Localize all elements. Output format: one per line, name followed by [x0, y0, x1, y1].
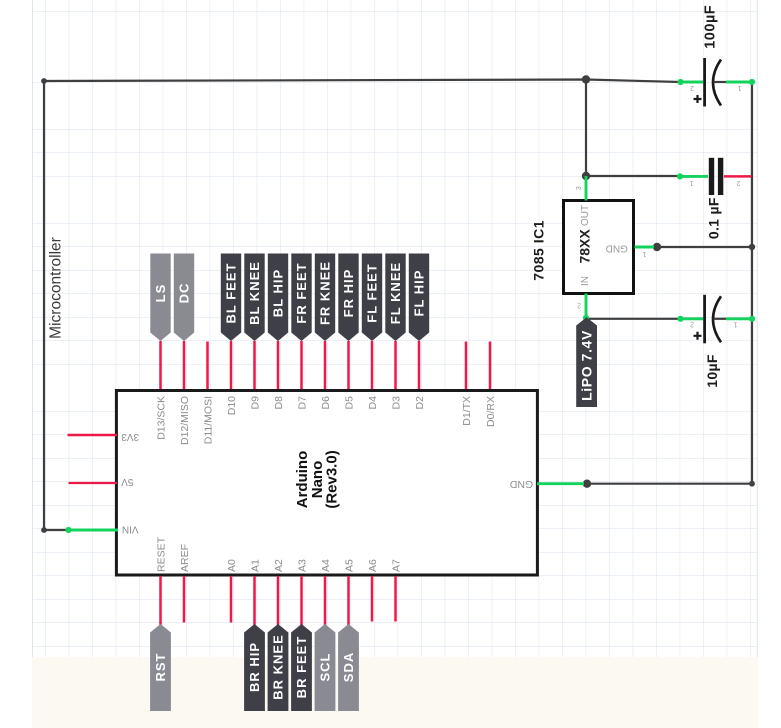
- node: Arduino GND junction: [583, 480, 591, 488]
- svg-text:SCL: SCL: [318, 653, 333, 682]
- capacitor C1 100uF curved plate: [713, 60, 721, 106]
- svg-text:D10: D10: [226, 396, 238, 415]
- wire: regulator GND to right rail: [657, 246, 752, 248]
- flag BR HIP on A1: [244, 624, 265, 711]
- svg-text:LS: LS: [153, 284, 168, 303]
- flag BR KNEE on A2: [268, 624, 289, 711]
- svg-text:3V3: 3V3: [121, 431, 139, 442]
- svg-text:2: 2: [736, 179, 740, 186]
- pin D2 leg: [418, 341, 421, 389]
- flag LiPO 7.4V on regulator IN: [576, 317, 597, 407]
- flag FR FEET on D7: [291, 254, 311, 342]
- pin D13/SCK leg: [159, 341, 162, 389]
- svg-text:A3: A3: [296, 559, 308, 572]
- wire: vertical from top rail to regulator OUT node: [585, 80, 587, 177]
- flag BL FEET on D10: [221, 254, 241, 342]
- svg-text:A5: A5: [343, 559, 355, 572]
- svg-text:FL HIP: FL HIP: [412, 270, 427, 317]
- pin D6 leg: [324, 341, 327, 389]
- svg-text:A0: A0: [226, 559, 238, 572]
- svg-text:100µF: 100µF: [703, 5, 719, 49]
- pin 5V leg: [69, 482, 118, 484]
- flag FL FEET on D4: [362, 254, 382, 342]
- capacitor C1 tick to right leg: [714, 81, 727, 83]
- svg-text:A7: A7: [390, 559, 402, 572]
- svg-text:BR FEET: BR FEET: [294, 636, 309, 699]
- flag FL KNEE on D3: [385, 254, 405, 342]
- svg-text:D13/SCK: D13/SCK: [155, 396, 167, 440]
- svg-text:D7: D7: [296, 396, 308, 410]
- svg-text:BL FEET: BL FEET: [224, 263, 239, 324]
- pin 3V3 leg: [68, 434, 118, 437]
- svg-text:BL KNEE: BL KNEE: [247, 261, 262, 325]
- flag FR HIP on D5: [338, 254, 358, 342]
- svg-text:1: 1: [689, 179, 693, 186]
- pin A5 leg: [347, 576, 350, 625]
- pin D12/MISO leg: [183, 341, 186, 389]
- svg-text:DC: DC: [177, 283, 192, 304]
- svg-text:10µF: 10µF: [704, 354, 720, 388]
- pin GND leg (connected): [537, 482, 584, 485]
- svg-text:A4: A4: [320, 559, 332, 572]
- pin RESET leg: [159, 576, 162, 625]
- svg-text:D2: D2: [414, 396, 426, 410]
- capacitor C2 plate 2: [718, 158, 723, 195]
- svg-text:FR KNEE: FR KNEE: [318, 261, 333, 325]
- capacitor C2 0.1uF leg left: [680, 175, 708, 178]
- svg-text:RESET: RESET: [155, 536, 167, 572]
- svg-text:OUT: OUT: [580, 205, 591, 226]
- flag RST (grey) on RESET: [150, 624, 171, 711]
- svg-text:1: 1: [733, 321, 737, 328]
- svg-text:Microcontroller: Microcontroller: [48, 237, 65, 339]
- capacitor C1 plus sign: [694, 95, 702, 103]
- svg-text:GND: GND: [606, 242, 628, 253]
- svg-text:RST: RST: [153, 653, 168, 682]
- svg-text:BR HIP: BR HIP: [247, 642, 262, 692]
- svg-text:D3: D3: [390, 396, 402, 410]
- capacitor C3 10uF curved plate: [713, 296, 721, 342]
- pin A0 leg: [230, 576, 233, 623]
- node: regulator OUT junction: [582, 172, 590, 180]
- svg-text:FR FEET: FR FEET: [294, 262, 309, 323]
- pin AREF leg: [183, 576, 186, 623]
- svg-text:1: 1: [737, 84, 741, 91]
- pin D9 leg: [253, 341, 256, 389]
- svg-text:FL FEET: FL FEET: [365, 263, 380, 322]
- svg-text:2: 2: [690, 321, 694, 328]
- pin A6 leg: [371, 576, 374, 622]
- svg-text:D4: D4: [367, 396, 379, 410]
- pin A1 leg: [253, 576, 256, 625]
- svg-text:BL HIP: BL HIP: [271, 269, 286, 317]
- svg-text:AREF: AREF: [179, 544, 191, 572]
- flag DC (grey) on D12: [174, 254, 194, 342]
- node: VIN bend: [41, 527, 47, 533]
- wire: left vertical VIN rail: [43, 81, 45, 530]
- svg-text:D1/TX: D1/TX: [461, 396, 473, 426]
- svg-text:1: 1: [642, 250, 646, 257]
- svg-text:FL KNEE: FL KNEE: [388, 262, 403, 324]
- pin D5 leg: [347, 341, 350, 389]
- wire: top horizontal rail: [44, 80, 681, 83]
- flag FL HIP on D2: [409, 254, 429, 342]
- pin D10 leg: [230, 341, 233, 389]
- svg-text:VIN: VIN: [122, 523, 139, 534]
- svg-text:7085 IC1: 7085 IC1: [531, 220, 547, 281]
- wire: right vertical ground rail: [751, 82, 753, 484]
- capacitor C3 tick to right leg: [714, 318, 727, 320]
- pin A4 leg: [324, 576, 327, 625]
- node: top rail junction: [582, 75, 590, 83]
- svg-text:IN: IN: [580, 276, 591, 286]
- pin VIN leg (connected): [69, 529, 119, 532]
- svg-text:LiPO 7.4V: LiPO 7.4V: [579, 330, 595, 401]
- regulator 78XX IC1 body: [564, 201, 634, 294]
- svg-text:D12/MISO: D12/MISO: [179, 396, 191, 445]
- svg-text:D5: D5: [343, 396, 355, 410]
- pin A2 leg: [277, 576, 280, 625]
- pin D7 leg: [300, 341, 303, 389]
- capacitor C3 plus sign: [694, 332, 702, 340]
- regulator IN leg (pin 2): [585, 294, 588, 319]
- pin D11/MOSI leg: [206, 342, 209, 390]
- svg-text:2: 2: [690, 84, 694, 91]
- capacitor C2 plate 1: [709, 158, 714, 195]
- svg-text:GND: GND: [509, 478, 533, 490]
- wire: LiPO node to 10uF: [586, 318, 681, 320]
- svg-text:D11/MOSI: D11/MOSI: [202, 396, 214, 444]
- regulator OUT leg (pin 3): [585, 176, 588, 201]
- pin D1/TX leg: [465, 342, 468, 390]
- node: right rail at GND wire corner: [749, 244, 755, 250]
- svg-text:78XX: 78XX: [577, 229, 593, 264]
- svg-text:D9: D9: [249, 396, 261, 410]
- svg-text:A6: A6: [367, 559, 379, 572]
- svg-text:A2: A2: [273, 559, 285, 572]
- node: top-left bend: [41, 78, 47, 84]
- capacitor C1 100uF leg left: [681, 81, 704, 84]
- node: right rail bottom corner: [749, 481, 755, 487]
- svg-text:0.1 µF: 0.1 µF: [706, 197, 722, 239]
- svg-text:2: 2: [577, 302, 581, 309]
- capacitor C3 10uF leg right: [726, 317, 752, 320]
- wire: Arduino GND row: [587, 483, 752, 485]
- regulator GND leg (pin 1): [635, 246, 655, 249]
- capacitor C1 100uF plate +: [703, 58, 706, 107]
- flag SDA (grey) on A5: [338, 624, 359, 711]
- svg-text:D8: D8: [273, 396, 285, 410]
- wire: VIN stub to pin: [44, 529, 67, 531]
- svg-text:SDA: SDA: [341, 652, 356, 682]
- flag SCL (grey) on A4: [315, 624, 336, 711]
- flag BL KNEE on D9: [244, 254, 264, 342]
- node: regulator GND junction: [653, 243, 661, 251]
- svg-text:3: 3: [576, 186, 583, 190]
- capacitor C2 0.1uF leg right (unconnected red): [724, 175, 752, 178]
- svg-text:D6: D6: [320, 396, 332, 410]
- svg-text:(Rev3.0): (Rev3.0): [324, 450, 341, 508]
- pin D4 leg: [371, 341, 374, 389]
- canvas background strip below sheet: [32, 657, 758, 728]
- flag LS (grey) on D13: [150, 254, 170, 342]
- svg-text:FR HIP: FR HIP: [341, 269, 356, 318]
- svg-text:A1: A1: [249, 559, 261, 572]
- svg-text:5V: 5V: [121, 476, 134, 487]
- pin A7 leg: [394, 576, 397, 622]
- pin D8 leg: [277, 341, 280, 389]
- flag BR FEET on A3: [291, 624, 312, 711]
- wire: OUT node to 0.1uF: [586, 175, 680, 177]
- flag FR KNEE on D6: [315, 254, 335, 342]
- svg-text:BR KNEE: BR KNEE: [271, 634, 286, 700]
- Arduino Nano U1 body: [116, 391, 537, 576]
- pin D3 leg: [394, 341, 397, 389]
- flag BL HIP on D8: [268, 254, 288, 342]
- capacitor C1 100uF leg right: [726, 81, 752, 84]
- capacitor C3 10uF plate +: [703, 295, 706, 344]
- capacitor C3 10uF leg left: [681, 317, 704, 320]
- svg-text:D0/RX: D0/RX: [485, 396, 497, 427]
- pin A3 leg: [300, 576, 303, 625]
- pin D0/RX leg: [489, 342, 492, 390]
